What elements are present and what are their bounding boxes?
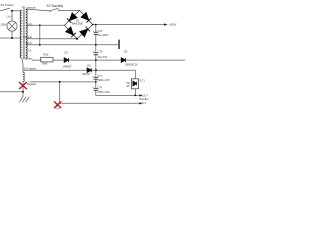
svg-text:C77: C77 bbox=[97, 74, 102, 78]
svg-text:22u 400V: 22u 400V bbox=[97, 33, 108, 37]
svg-text:+12 V: +12 V bbox=[141, 93, 148, 97]
svg-text:5W6: 5W6 bbox=[42, 61, 48, 65]
svg-text:primair: primair bbox=[26, 6, 35, 10]
svg-text:+300V: +300V bbox=[169, 22, 177, 26]
svg-text:D4: D4 bbox=[87, 63, 91, 67]
svg-text:D3: D3 bbox=[124, 50, 128, 54]
svg-text:+16V gesch: +16V gesch bbox=[22, 67, 36, 71]
svg-text:gesch: gesch bbox=[26, 43, 33, 45]
svg-text:D2: D2 bbox=[65, 50, 69, 54]
svg-text:1N4007: 1N4007 bbox=[63, 64, 73, 68]
svg-text:C76: C76 bbox=[98, 49, 103, 53]
svg-text:S1 Power: S1 Power bbox=[1, 3, 14, 7]
svg-text:+260: +260 bbox=[27, 23, 33, 26]
svg-text:B40C800: B40C800 bbox=[72, 22, 83, 26]
svg-text:IC71: IC71 bbox=[139, 79, 145, 83]
svg-text:C74: C74 bbox=[97, 85, 102, 89]
svg-text:LA 1: LA 1 bbox=[7, 14, 13, 18]
svg-text:230V: 230V bbox=[1, 23, 7, 27]
svg-text:+5 V: +5 V bbox=[141, 101, 147, 105]
svg-text:Standby: Standby bbox=[139, 97, 149, 101]
svg-text:Geheel: Geheel bbox=[24, 35, 33, 39]
svg-text:R25: R25 bbox=[44, 52, 49, 56]
svg-text:40u 63V: 40u 63V bbox=[98, 55, 108, 59]
svg-text:Degauss: Degauss bbox=[27, 83, 37, 86]
svg-text:BA157: BA157 bbox=[83, 72, 91, 76]
svg-text:C78: C78 bbox=[97, 29, 102, 33]
svg-text:BZX85C16: BZX85C16 bbox=[126, 64, 138, 67]
svg-text:S2 Standby: S2 Standby bbox=[47, 4, 64, 8]
svg-text:TR: TR bbox=[21, 5, 25, 9]
svg-text:2200u 16V: 2200u 16V bbox=[97, 78, 110, 82]
svg-text:Chassis: Chassis bbox=[23, 56, 33, 60]
svg-text:2200u 16V: 2200u 16V bbox=[97, 90, 110, 94]
